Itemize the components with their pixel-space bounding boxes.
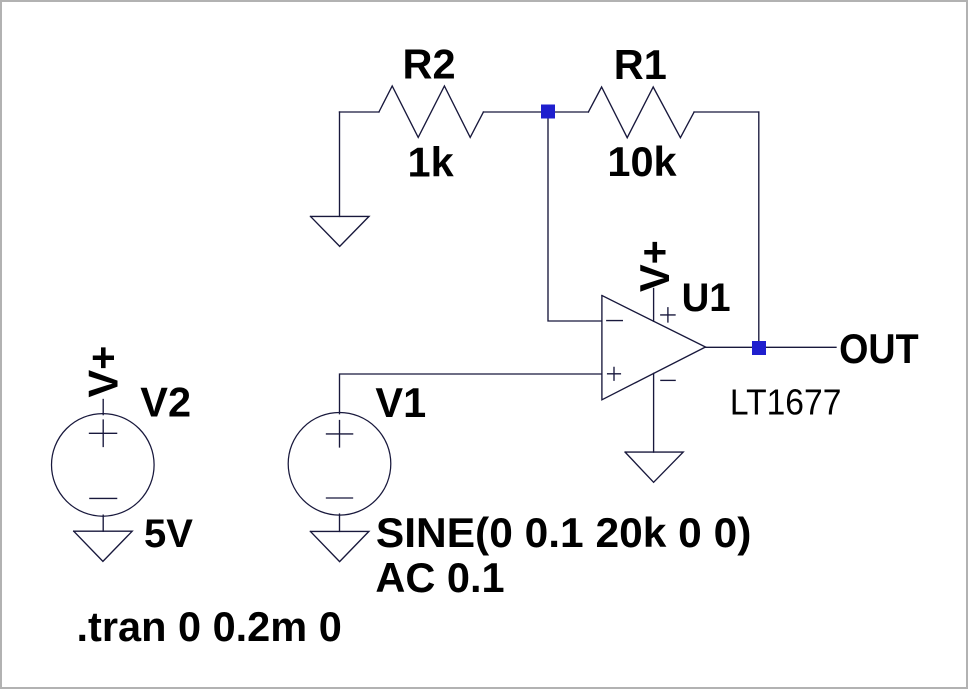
voltage source V2 circle — [52, 414, 155, 517]
wire R2 right to node A — [483, 111, 548, 113]
ground under V2 — [74, 531, 133, 561]
svg-text:V1: V1 — [375, 379, 426, 426]
svg-text:SINE(0 0.1 20k 0 0): SINE(0 0.1 20k 0 0) — [376, 509, 752, 556]
V1 minus mark — [327, 497, 353, 499]
junction node A — [541, 105, 555, 119]
V2 minus mark — [90, 497, 117, 499]
wire V1 bottom stub — [339, 514, 341, 531]
op-amp U1 triangle — [602, 296, 706, 400]
ground under V1 — [310, 531, 369, 561]
wire op-amp output to OUT — [706, 346, 837, 348]
svg-text:5V: 5V — [144, 512, 193, 556]
ground under op-amp — [625, 452, 683, 482]
op-amp V- supply minus mark — [661, 379, 675, 381]
op-amp V+ supply pin — [653, 289, 655, 322]
svg-text:AC 0.1: AC 0.1 — [375, 554, 504, 601]
wire V2 top stub to net V+ — [102, 400, 104, 415]
svg-text:1k: 1k — [408, 139, 455, 186]
resistor R2 — [379, 86, 484, 137]
voltage source V1 circle — [288, 413, 391, 516]
op-amp V- supply pin — [653, 373, 655, 452]
svg-text:R2: R2 — [403, 41, 456, 88]
svg-text:V+: V+ — [80, 346, 127, 398]
wire R1 right vertical down to output node — [758, 112, 760, 347]
op-amp non-inverting input plus mark — [608, 367, 621, 380]
wire R1 right horizontal — [694, 111, 759, 113]
svg-text:V2: V2 — [140, 379, 191, 426]
resistor R1 — [588, 87, 694, 138]
op-amp inverting input minus mark — [607, 320, 623, 322]
svg-text:10k: 10k — [607, 138, 677, 185]
V2 plus mark — [90, 420, 117, 446]
svg-text:OUT: OUT — [839, 325, 919, 372]
wire node A to R1 left — [548, 111, 588, 113]
svg-text:.tran 0 0.2m 0: .tran 0 0.2m 0 — [77, 603, 342, 650]
wire node A down to inverting input — [548, 112, 602, 321]
wire V1 top to non-inverting input — [340, 374, 602, 414]
op-amp V+ supply plus mark — [661, 308, 675, 322]
ground under R2 — [311, 216, 370, 246]
wire V2 bottom stub — [102, 515, 104, 531]
svg-text:U1: U1 — [682, 276, 731, 320]
V1 plus mark — [327, 421, 353, 447]
svg-text:R1: R1 — [614, 41, 667, 88]
junction output node — [752, 341, 766, 355]
svg-text:V+: V+ — [631, 240, 678, 292]
svg-text:LT1677: LT1677 — [730, 382, 842, 423]
wire R2 left horizontal — [340, 111, 379, 113]
wire R2 left vertical to ground — [339, 112, 341, 216]
